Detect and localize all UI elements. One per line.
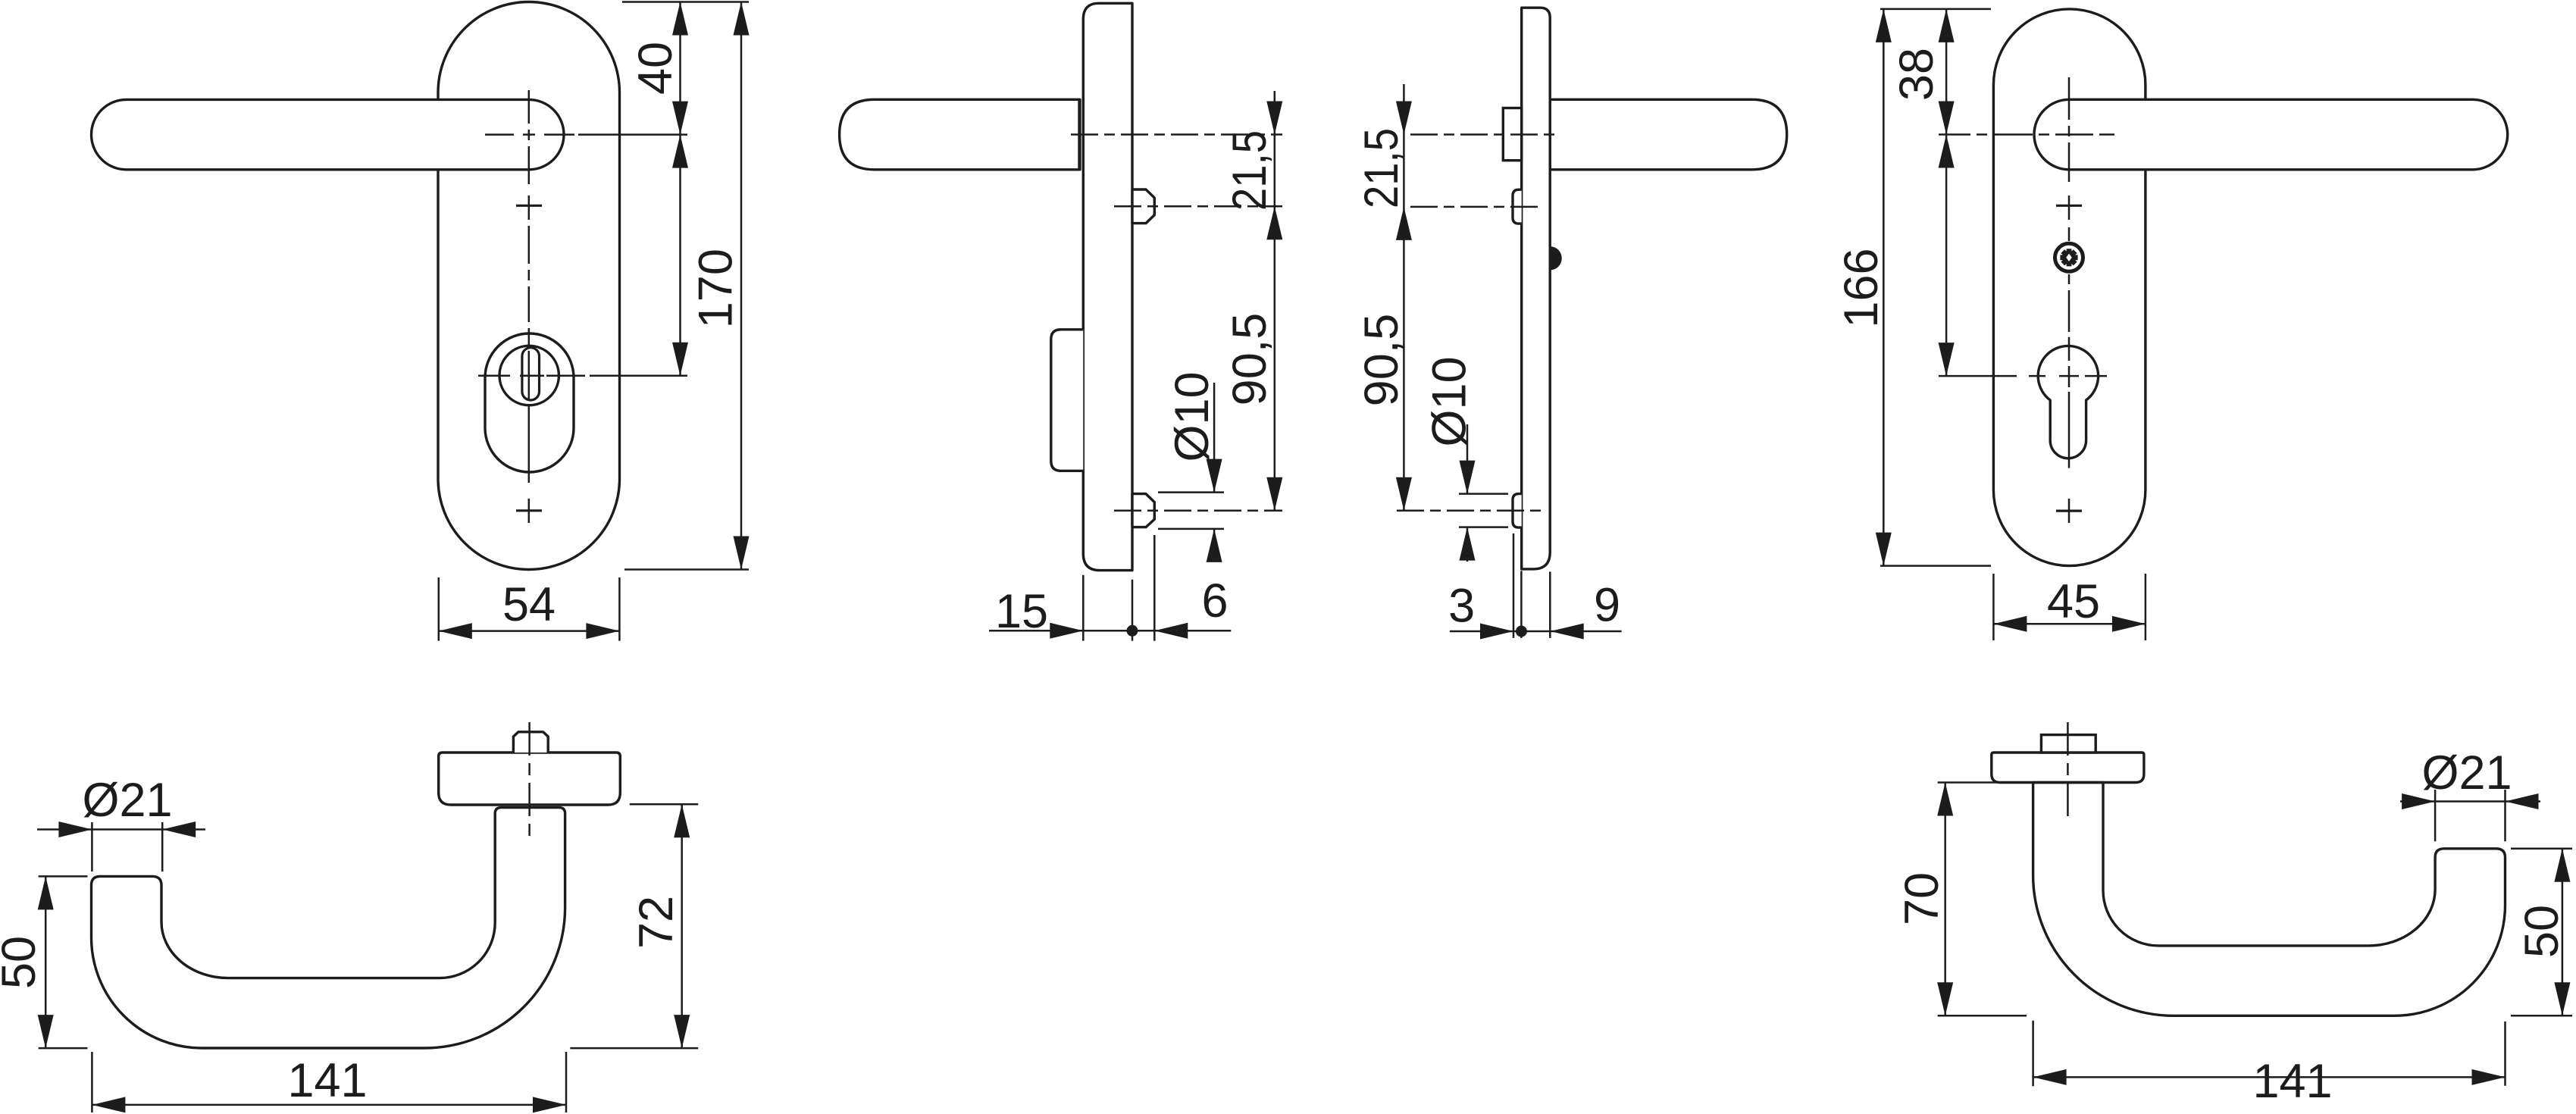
svg-text:21,5: 21,5 (1355, 128, 1408, 208)
svg-text:45: 45 (2047, 575, 2100, 628)
svg-text:38: 38 (1890, 48, 1943, 101)
svg-text:9: 9 (1594, 579, 1620, 632)
svg-text:54: 54 (502, 578, 556, 631)
svg-text:40: 40 (629, 42, 682, 95)
svg-text:Ø10: Ø10 (1166, 371, 1219, 462)
svg-text:166: 166 (1835, 248, 1888, 327)
svg-text:21,5: 21,5 (1223, 130, 1276, 211)
svg-text:72: 72 (630, 896, 683, 949)
svg-text:Ø21: Ø21 (82, 774, 172, 827)
svg-text:70: 70 (1895, 872, 1948, 925)
svg-text:3: 3 (1448, 580, 1475, 633)
svg-text:141: 141 (2252, 1055, 2332, 1108)
svg-text:50: 50 (2515, 905, 2568, 958)
svg-text:Ø21: Ø21 (2421, 746, 2512, 800)
svg-text:90,5: 90,5 (1355, 314, 1408, 407)
svg-text:6: 6 (1201, 574, 1228, 627)
svg-text:141: 141 (287, 1054, 367, 1107)
svg-text:Ø10: Ø10 (1423, 356, 1476, 446)
svg-text:15: 15 (995, 585, 1048, 638)
svg-text:170: 170 (689, 249, 742, 328)
svg-text:50: 50 (0, 936, 45, 989)
svg-text:90,5: 90,5 (1223, 313, 1276, 406)
